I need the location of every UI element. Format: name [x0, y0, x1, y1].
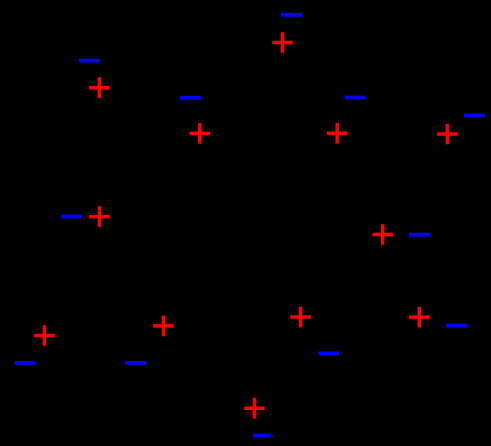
negative charge 1 (top) [281, 13, 302, 17]
positive charge 4 [327, 123, 348, 144]
bond line crossing negative charge 12 [268, 431, 275, 441]
positive charge 12 (bottom) [244, 398, 265, 419]
negative charge 2 [79, 59, 100, 63]
positive charge 3 [190, 123, 211, 144]
negative charge 11 [446, 324, 467, 328]
negative charge 6 [61, 215, 82, 219]
positive charge 9 [153, 316, 174, 337]
positive charge 8 [34, 325, 55, 346]
positive charge 2 [89, 77, 110, 98]
negative charge 10 [318, 351, 339, 355]
negative charge 4 [345, 96, 366, 100]
negative charge 9 [125, 361, 146, 365]
positive charge 5 [437, 124, 458, 145]
negative charge 7 [409, 233, 430, 237]
positive charge 6 [89, 206, 110, 227]
positive charge 10 [290, 307, 311, 328]
negative charge 5 [464, 114, 485, 118]
negative charge 12 (bottom) [253, 434, 274, 438]
positive charge 11 [409, 307, 430, 328]
positive charge 7 [372, 224, 393, 245]
positive charge 1 (top) [272, 32, 293, 53]
negative charge 8 [15, 361, 36, 365]
negative charge 3 [180, 96, 201, 100]
